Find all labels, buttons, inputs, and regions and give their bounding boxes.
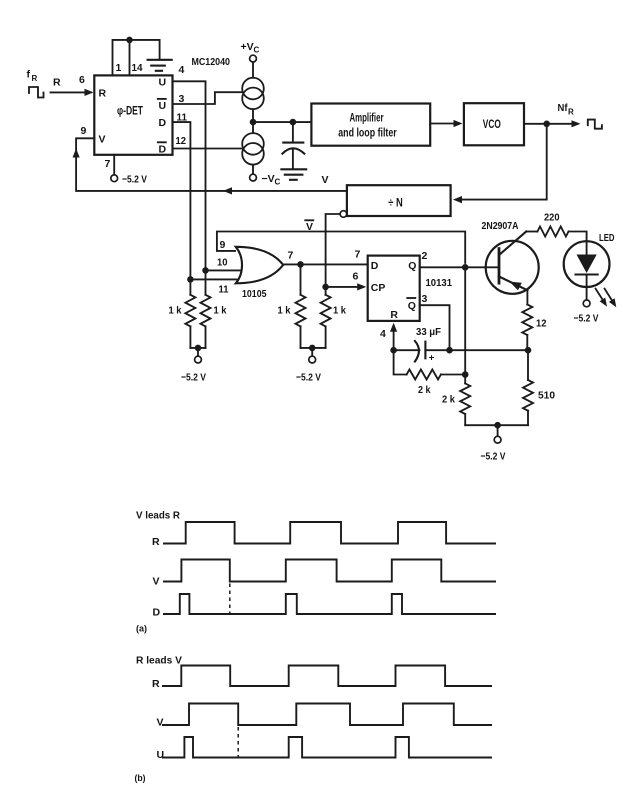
svg-text:C: C bbox=[275, 178, 281, 187]
terminal -5.2V (bottom rail) bbox=[481, 436, 506, 462]
svg-text:−5.2 V: −5.2 V bbox=[574, 313, 599, 325]
svg-text:V: V bbox=[322, 174, 329, 186]
junction bottom rail bbox=[494, 422, 501, 429]
junction loop filter cap tap bbox=[290, 119, 297, 126]
svg-text:−5.2 V: −5.2 V bbox=[296, 372, 321, 384]
svg-text:+V: +V bbox=[241, 41, 254, 53]
svg-text:2: 2 bbox=[422, 250, 428, 262]
junction pin11 pulldown bbox=[187, 276, 194, 283]
terminal -5.2V (R1 R2) bbox=[181, 356, 206, 383]
svg-text:f: f bbox=[27, 69, 31, 81]
waveform (b) trace R bbox=[152, 666, 492, 691]
svg-text:2 k: 2 k bbox=[442, 394, 455, 406]
svg-text:φ-DET: φ-DET bbox=[117, 106, 143, 118]
junction D line pulldown bbox=[297, 261, 304, 268]
svg-text:Q: Q bbox=[408, 260, 416, 272]
svg-text:1 k: 1 k bbox=[169, 305, 182, 317]
wire U pin4 to OR gate pin 10 bbox=[173, 81, 206, 270]
waveform (b) trace V bbox=[157, 704, 493, 729]
svg-text:Nf: Nf bbox=[558, 102, 568, 114]
wire OR gate pin 10 input bbox=[206, 269, 241, 271]
junction 12-510 node bbox=[525, 347, 532, 354]
junction capacitor right Qbar bbox=[446, 347, 453, 354]
transistor Q1 2N2907A bbox=[482, 220, 539, 294]
wire Vbar from divider bubble to CP and pulldown bbox=[305, 211, 346, 295]
svg-text:1: 1 bbox=[116, 62, 122, 74]
svg-text:R leads V: R leads V bbox=[136, 655, 182, 667]
resistor R2 1k bbox=[201, 270, 227, 348]
waveform (b) trace U bbox=[157, 737, 493, 761]
svg-text:R: R bbox=[390, 309, 398, 321]
svg-text:U: U bbox=[159, 76, 167, 88]
svg-text:VCO: VCO bbox=[483, 119, 501, 131]
svg-text:11: 11 bbox=[219, 284, 229, 296]
svg-text:12: 12 bbox=[176, 135, 187, 147]
junction Q base Vbar-vertical bbox=[462, 264, 469, 271]
svg-text:−5.2 V: −5.2 V bbox=[122, 174, 147, 186]
svg-text:2 k: 2 k bbox=[418, 384, 431, 396]
wire Dbar pin12 to current source I2 bbox=[173, 148, 243, 150]
or-gate U2 10105 bbox=[217, 239, 283, 300]
terminal -VC bbox=[250, 173, 281, 187]
output waveform symbol NfR bbox=[588, 120, 602, 129]
svg-text:R: R bbox=[32, 74, 38, 83]
waveform (a) trace R bbox=[152, 522, 496, 548]
wire R1 R2 common to supply bbox=[190, 348, 205, 356]
wire R input with node label R and pin 6 bbox=[51, 74, 94, 96]
svg-text:+: + bbox=[429, 353, 435, 364]
svg-text:1 k: 1 k bbox=[278, 305, 291, 317]
svg-text:1 k: 1 k bbox=[333, 305, 346, 317]
junction R1 R2 bbox=[195, 345, 202, 352]
waveform (a) trace D bbox=[153, 594, 497, 619]
waveform (b) dashed marker bbox=[237, 727, 239, 757]
svg-text:7: 7 bbox=[288, 250, 294, 262]
svg-text:Q: Q bbox=[408, 300, 416, 312]
junction 2k node bbox=[462, 371, 469, 378]
svg-text:D: D bbox=[159, 117, 167, 129]
svg-text:4: 4 bbox=[179, 64, 185, 76]
junction R3 R4 bbox=[309, 345, 316, 352]
wire bottom supply rail bbox=[465, 425, 528, 436]
current source I1 (charge pump up) bbox=[242, 78, 264, 133]
resistor R6 2k vertical bbox=[442, 375, 470, 426]
svg-text:V leads R: V leads R bbox=[136, 510, 180, 522]
svg-text:7: 7 bbox=[355, 249, 361, 261]
svg-text:7: 7 bbox=[105, 158, 111, 170]
svg-text:R: R bbox=[53, 77, 61, 89]
svg-text:510: 510 bbox=[538, 390, 555, 402]
wire VCO to divider bbox=[453, 124, 547, 203]
capacitor C2 33uF bbox=[394, 326, 450, 364]
wire V feedback from divider to phase detector V pin 9 bbox=[73, 138, 347, 194]
svg-text:CP: CP bbox=[371, 282, 386, 294]
wire VCO output NfR bbox=[524, 102, 581, 127]
ground (phase detector) bbox=[148, 60, 172, 71]
wire charge pump node to amplifier bbox=[253, 121, 311, 123]
resistor R9 510 bbox=[523, 350, 555, 425]
node charge pump output junction bbox=[250, 119, 257, 126]
svg-text:and loop filter: and loop filter bbox=[338, 127, 397, 139]
wire Q output pin 2 to transistor base bbox=[420, 266, 499, 268]
terminal -5.2V pin 7 bbox=[111, 155, 147, 186]
wire collector to 220 resistor bbox=[526, 231, 537, 233]
svg-text:10131: 10131 bbox=[426, 277, 453, 289]
svg-text:V: V bbox=[157, 717, 164, 729]
wire D pin11 to OR gate pin 11 bbox=[173, 122, 191, 279]
svg-text:÷ N: ÷ N bbox=[388, 198, 403, 210]
ground (loop filter) bbox=[281, 169, 306, 180]
svg-text:10: 10 bbox=[217, 257, 228, 269]
svg-text:9: 9 bbox=[81, 125, 87, 137]
junction pin10 pulldown bbox=[202, 267, 209, 274]
waveform (a) dashed marker bbox=[229, 584, 231, 615]
resistor R4 1k bbox=[321, 295, 347, 348]
wire Vbar vertical Q junction down to 2k node bbox=[464, 267, 466, 374]
current source I2 (charge pump down) bbox=[242, 133, 264, 174]
resistor R1 1k bbox=[169, 279, 196, 348]
wire amplifier to VCO bbox=[430, 120, 462, 127]
wire cap node to 12-510 node bbox=[450, 349, 529, 351]
capacitor C1 loop filter bbox=[282, 122, 304, 168]
waveform (a) trace V bbox=[153, 560, 497, 588]
svg-text:V: V bbox=[153, 576, 160, 588]
junction pin14 rail bbox=[126, 37, 133, 44]
svg-text:10105: 10105 bbox=[242, 288, 267, 300]
svg-text:MC12040: MC12040 bbox=[192, 56, 231, 68]
flip-flop U3 10131 bbox=[355, 249, 453, 341]
svg-text:(a): (a) bbox=[136, 624, 147, 634]
svg-text:R: R bbox=[152, 678, 160, 690]
svg-text:Amplifier: Amplifier bbox=[350, 113, 384, 125]
svg-text:2N2907A: 2N2907A bbox=[482, 220, 519, 232]
LED light arrows bbox=[596, 289, 617, 308]
terminal -5.2V (LED) bbox=[574, 300, 599, 325]
wire OR output pin 7 to flip-flop D bbox=[283, 250, 368, 265]
svg-text:LED: LED bbox=[599, 232, 615, 244]
svg-text:V: V bbox=[99, 134, 106, 146]
svg-text:U: U bbox=[159, 100, 167, 112]
wire Q feedback to OR gate pin 9 bbox=[217, 232, 465, 264]
resistor R5 2k horizontal bbox=[394, 350, 466, 396]
svg-text:−5.2 V: −5.2 V bbox=[481, 451, 506, 463]
LED D1 bbox=[564, 232, 615, 300]
wire Qbar pin 3 to capacitor bbox=[420, 305, 450, 350]
junction reset cap node bbox=[390, 347, 397, 354]
wire R reset input pin 4 bbox=[390, 323, 397, 350]
svg-text:4: 4 bbox=[380, 328, 386, 340]
wire CP clock input with pin 6 bbox=[326, 271, 367, 291]
svg-text:D: D bbox=[153, 607, 161, 619]
terminal +VC bbox=[241, 41, 260, 78]
wire OR gate pin 11 input bbox=[190, 278, 237, 280]
amplifier block: amplifier and loop filter bbox=[311, 104, 430, 146]
svg-text:1 k: 1 k bbox=[214, 305, 227, 317]
svg-text:(b): (b) bbox=[135, 773, 146, 783]
svg-text:R: R bbox=[152, 536, 160, 548]
svg-text:9: 9 bbox=[220, 239, 226, 251]
svg-text:U: U bbox=[157, 749, 165, 761]
svg-text:14: 14 bbox=[132, 62, 143, 74]
svg-text:3: 3 bbox=[422, 293, 428, 305]
junction CP Vbar bbox=[322, 284, 329, 291]
svg-text:−V: −V bbox=[262, 173, 275, 185]
terminal -5.2V (R3 R4) bbox=[296, 356, 321, 383]
resistor R8 12 bbox=[522, 305, 546, 351]
svg-text:6: 6 bbox=[353, 271, 359, 283]
svg-text:6: 6 bbox=[79, 74, 85, 86]
svg-text:220: 220 bbox=[544, 212, 560, 224]
svg-text:R: R bbox=[99, 88, 107, 100]
wire Ubar pin3 to current source I1 bbox=[173, 92, 243, 104]
VCO block bbox=[464, 103, 524, 145]
svg-text:R: R bbox=[568, 108, 574, 117]
svg-text:12: 12 bbox=[536, 318, 547, 330]
wire emitter to 12 resistor bbox=[526, 290, 528, 304]
phase detector U1 MC12040 (box) bbox=[81, 56, 231, 170]
input signal fR waveform symbol bbox=[27, 69, 44, 98]
svg-text:C: C bbox=[254, 46, 260, 55]
wire R3 R4 common to supply bbox=[301, 348, 326, 356]
svg-text:D: D bbox=[371, 260, 379, 272]
svg-text:D: D bbox=[159, 144, 167, 156]
junction VCO output bbox=[543, 121, 550, 128]
resistor R7 220 bbox=[537, 212, 586, 242]
divider block ÷N bbox=[347, 185, 451, 216]
resistor R3 1k bbox=[278, 264, 306, 348]
wire pins 1 and 14 to ground rail bbox=[113, 40, 160, 76]
svg-text:−5.2 V: −5.2 V bbox=[181, 372, 206, 384]
svg-text:33 μF: 33 μF bbox=[416, 326, 442, 338]
